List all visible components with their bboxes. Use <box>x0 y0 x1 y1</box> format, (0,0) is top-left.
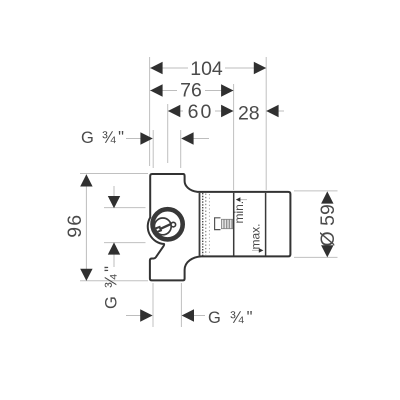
max arrow tail <box>252 249 260 251</box>
svg-text:G¾": G¾" <box>81 129 124 148</box>
port small circle <box>171 222 176 227</box>
arrow 76 right <box>221 84 233 96</box>
side port bottom ext <box>104 242 146 244</box>
thread stipple column 2 <box>205 194 207 256</box>
side port dim tail top <box>113 186 115 208</box>
arrow 60 left <box>168 105 180 117</box>
svg-text:min.: min. <box>232 201 246 224</box>
dimension lines group <box>86 68 284 316</box>
min level line <box>233 193 235 256</box>
flange bottom ext (96) <box>80 280 148 282</box>
lever shaft <box>159 224 171 229</box>
cartridge box <box>215 218 221 230</box>
arrow 76 left <box>150 84 162 96</box>
svg-text:60: 60 <box>188 101 214 123</box>
valve body silhouette <box>148 174 291 280</box>
port ring outer <box>153 209 183 239</box>
ext line x=266.2 (104/28 right) <box>265 57 267 190</box>
top port ext right <box>180 130 182 168</box>
dia59 arrow bottom (points down) <box>321 245 333 257</box>
arrow 96 top (points up) <box>80 174 92 186</box>
dia59 arrow top (points up) <box>321 191 333 203</box>
side port top ext <box>104 207 146 209</box>
dim tail 28 <box>266 110 284 112</box>
arrow G3/4 bottom left (points right) <box>140 309 152 321</box>
svg-text:104: 104 <box>190 58 223 80</box>
side port dim tail bottom <box>113 243 115 267</box>
arrow 28 right (points left) <box>266 105 278 117</box>
dia59 top ext <box>294 190 338 192</box>
dia59 bottom ext <box>294 256 338 258</box>
arrow 104 right <box>254 62 266 74</box>
lever handle end <box>155 227 161 232</box>
bottom port ext left <box>152 283 154 327</box>
top port ext left <box>152 130 154 168</box>
dim line 104 <box>150 67 188 69</box>
arrow 96 bottom (points down) <box>80 269 92 281</box>
spindle thread hatch <box>221 219 233 228</box>
dim tail G3/4 top right <box>193 138 209 140</box>
svg-text:96: 96 <box>64 214 86 238</box>
bottom port ext right <box>180 283 182 327</box>
svg-text:max.: max. <box>248 223 262 249</box>
arrow 104 left <box>150 62 162 74</box>
flange/cylinder junction line <box>199 193 201 256</box>
thread stipple column 3 <box>208 194 210 255</box>
arrow G3/4 bottom right (points left) <box>182 309 194 321</box>
ext line x=167.7 (60 left) <box>167 104 169 163</box>
dim tail G3/4 top left <box>126 138 141 140</box>
side port arrow top (points down) <box>108 196 120 208</box>
dim line 60 <box>168 110 183 112</box>
svg-text:G¾": G¾" <box>102 266 121 309</box>
max level line <box>265 193 267 256</box>
min arrow tail <box>240 199 248 201</box>
side port arrow bottom (points up) <box>108 242 120 254</box>
min arrow (points left) <box>236 197 241 202</box>
port inner circle <box>154 218 171 235</box>
svg-text:G¾": G¾" <box>208 309 253 328</box>
arrow G3/4 top right (points left) <box>181 132 193 144</box>
dimension texts <box>64 58 339 247</box>
dim tail G3/4 bottom right <box>194 315 205 317</box>
ext line x=233.5 (60/76 right, 28 left) <box>233 84 235 190</box>
flange top ext (96) <box>80 173 148 175</box>
dim line 76 <box>150 90 177 92</box>
svg-text:Ø 59: Ø 59 <box>317 204 339 246</box>
thread stipple column 1 <box>202 193 204 256</box>
extension lines group <box>80 57 338 327</box>
dim line 96 <box>85 175 87 281</box>
max arrow (points right) <box>259 248 264 253</box>
arrowheads <box>80 62 333 322</box>
svg-text:76: 76 <box>180 80 202 102</box>
ext line x=149.5 (104/76 left) <box>149 57 151 166</box>
arrow 60 right <box>221 105 233 117</box>
arrow G3/4 top left (points right) <box>140 132 152 144</box>
dim tail G3/4 bottom left <box>126 315 141 317</box>
svg-text:28: 28 <box>238 103 260 125</box>
